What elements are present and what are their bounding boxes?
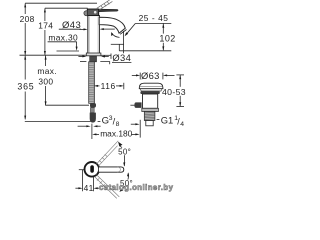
stream angle ray (45°) — [125, 24, 136, 37]
hose lower section — [90, 108, 94, 113]
svg-text:174: 174 — [38, 21, 53, 31]
shank nut below deck — [90, 56, 97, 62]
dimension 208 — [20, 3, 35, 55]
stream vertical reference line — [123, 31, 125, 53]
dimension Ø34 at deck — [78, 52, 131, 63]
stream bottom line — [111, 43, 124, 45]
dimension 365 — [17, 55, 34, 119]
dimension 174 — [38, 8, 53, 55]
label G1 1/4 with leader — [157, 114, 185, 127]
svg-text:max.180: max.180 — [100, 129, 132, 139]
dimension max.300 — [37, 55, 57, 105]
plug seat ring — [140, 89, 162, 91]
waste tail pipe — [146, 121, 153, 126]
svg-text:max.30: max.30 — [48, 33, 78, 43]
rod extension tick — [139, 120, 141, 138]
top view: lever slot — [90, 165, 94, 172]
dimension 40-53 — [162, 75, 186, 107]
deck limit line (max.30 reference) — [57, 50, 80, 52]
hose centre extension line below — [91, 124, 93, 139]
deck bottom line right with edge — [100, 62, 109, 65]
spout — [99, 17, 125, 33]
waste threaded tail — [144, 112, 155, 121]
svg-text:Ø34: Ø34 — [112, 52, 131, 63]
stream swivel arc arrow — [111, 32, 119, 38]
top view: handle ghost lower (-50°) — [95, 175, 120, 199]
pop-up rod port — [130, 102, 141, 108]
hose ball fitting — [90, 103, 96, 108]
label 50° lower — [120, 179, 133, 188]
label G3/8 with leader — [98, 115, 120, 128]
svg-text:116: 116 — [101, 81, 116, 91]
faucet body — [88, 16, 100, 56]
top view: handle ghost upper (+50°) — [96, 141, 118, 166]
svg-text:40-53: 40-53 — [162, 87, 186, 97]
label 50° upper — [118, 148, 131, 157]
dimension 116 — [94, 81, 124, 91]
label max.30 with down arrow to deck limit — [48, 33, 78, 51]
lever cap — [84, 9, 99, 16]
deck top line right + leader to Ø34 — [101, 54, 111, 56]
svg-text:208: 208 — [20, 14, 35, 24]
wire: 102 bottom extension line — [119, 50, 171, 52]
label 25 - 45 — [135, 13, 171, 23]
rotation arc lower with arrowheads — [119, 172, 129, 192]
svg-text:max.: max. — [37, 66, 57, 76]
arrow pair at hose centre line — [78, 125, 101, 127]
rotation arc upper with arrowheads — [118, 142, 125, 167]
deck bottom line left — [80, 61, 86, 63]
arrow to rod extension (upper) — [131, 123, 140, 125]
dimension max.180 — [92, 129, 139, 139]
svg-text:4: 4 — [180, 121, 184, 128]
wire: extension line top (208 level) — [25, 2, 97, 4]
faucet base plate — [86, 53, 101, 56]
dimension Ø43 (arrows at body edges) — [59, 20, 115, 31]
top view: handle rod — [99, 167, 124, 172]
pop-up waste: Ø63 dimension — [132, 70, 175, 81]
riser to 102 extension — [118, 44, 120, 51]
svg-text:catalog.onliner.by: catalog.onliner.by — [99, 183, 174, 192]
svg-text:25 - 45: 25 - 45 — [139, 13, 169, 23]
pop-up waste plug dome — [139, 83, 163, 89]
wire: max.300 extension line to hose — [45, 104, 89, 106]
lever rod — [99, 9, 118, 12]
svg-text:G1: G1 — [161, 114, 174, 125]
wire: extension line (174 level) — [45, 7, 88, 9]
lever rod raised ghost — [97, 0, 113, 10]
top view: base circle — [85, 162, 100, 177]
dimension 102 — [159, 24, 175, 51]
svg-text:Ø63: Ø63 — [141, 70, 160, 81]
svg-text:300: 300 — [38, 76, 53, 86]
svg-text:41: 41 — [84, 183, 94, 193]
hose end connector G3/8 — [90, 113, 96, 123]
wire: 365 bottom extension line — [25, 120, 93, 122]
deck top line left — [20, 54, 87, 56]
flexible hose — [89, 62, 95, 104]
svg-text:365: 365 — [17, 81, 34, 91]
svg-text:8: 8 — [116, 121, 120, 128]
waste upper body — [143, 94, 158, 108]
svg-text:102: 102 — [159, 34, 175, 44]
svg-text:50°: 50° — [118, 148, 131, 157]
waste lock nut — [142, 108, 159, 111]
waste flange underside — [140, 91, 159, 94]
cap nose — [84, 11, 87, 16]
dimension 41 — [75, 170, 99, 194]
spout outlet face — [120, 30, 126, 35]
